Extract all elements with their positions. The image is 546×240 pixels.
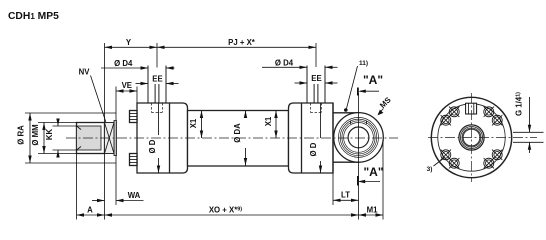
dimension G 1/4 — [513, 131, 544, 133]
rod thread bore KK — [77, 126, 102, 150]
extension line head port center — [156, 43, 158, 68]
dimension LT — [333, 199, 359, 201]
dimension KK — [53, 125, 77, 127]
svg-text:Ø DA: Ø DA — [233, 123, 242, 143]
end view centerlines — [428, 137, 537, 139]
svg-text:A: A — [87, 206, 93, 215]
svg-text:Ø D: Ø D — [309, 142, 318, 156]
svg-text:"A": "A" — [363, 165, 383, 179]
svg-text:3): 3) — [427, 166, 433, 173]
dimension EE cap port — [295, 82, 308, 84]
dimension PJ + X* — [157, 46, 316, 48]
svg-text:NV: NV — [79, 68, 91, 77]
dimension RA — [25, 112, 116, 114]
svg-text:KK: KK — [45, 129, 54, 141]
center bore circles — [459, 125, 484, 150]
svg-text:Ø D4: Ø D4 — [275, 58, 294, 67]
port boss at x=316 — [307, 66, 325, 104]
svg-text:11): 11) — [359, 60, 368, 67]
end view outer flange circle — [431, 97, 511, 177]
dimension M1 — [359, 214, 384, 216]
dimension D4 cap port — [262, 66, 307, 68]
hidden port thread — [310, 103, 312, 113]
svg-text:Ø D: Ø D — [148, 139, 157, 153]
end view port rect — [466, 103, 477, 114]
svg-text:CDH1 MP5: CDH1 MP5 — [8, 11, 59, 22]
svg-text:LT: LT — [341, 191, 350, 200]
dimension VE — [116, 90, 137, 92]
dimension MM — [38, 122, 77, 124]
dimension Y — [105, 46, 158, 48]
dimension D head — [158, 103, 160, 135]
svg-text:EE: EE — [152, 75, 162, 84]
svg-text:VE: VE — [122, 81, 132, 90]
svg-text:Y: Y — [126, 38, 132, 47]
spherical bearing rings — [339, 117, 379, 157]
dimension WA — [92, 200, 105, 202]
end view rim circle — [438, 104, 505, 171]
svg-text:Ø MM: Ø MM — [31, 124, 40, 145]
svg-text:X1: X1 — [189, 118, 198, 128]
svg-text:"A": "A" — [363, 73, 383, 87]
gland face strip — [114, 121, 117, 156]
wrench flats NV box — [105, 123, 115, 154]
svg-text:X1: X1 — [264, 116, 273, 126]
eye plate — [333, 113, 359, 162]
head retainer stub top — [130, 111, 138, 123]
dimension DA — [245, 111, 247, 119]
cylinder tube — [188, 111, 289, 167]
dimension X1 head — [201, 111, 203, 139]
svg-text:M1: M1 — [367, 206, 378, 215]
dimension X1 cap — [275, 111, 277, 139]
cap chamfer line — [301, 103, 303, 173]
bearing groove ticks — [350, 121, 352, 125]
port boss at x=157 — [148, 66, 166, 104]
svg-text:Ø D4: Ø D4 — [114, 59, 133, 68]
svg-text:EE: EE — [311, 74, 321, 83]
dimension A — [77, 214, 105, 216]
hidden port thread — [151, 103, 153, 113]
cylinder head block — [137, 103, 188, 173]
head chamfer line — [169, 103, 171, 173]
dimension D cap — [320, 103, 322, 138]
svg-text:PJ + X*: PJ + X* — [228, 38, 256, 47]
eye bore — [348, 127, 369, 148]
svg-text:WA: WA — [128, 191, 141, 200]
dimension XO + X* — [105, 214, 359, 216]
svg-text:Ø RA: Ø RA — [17, 125, 26, 145]
flange screws — [484, 107, 494, 117]
head retainer stub bottom — [130, 154, 138, 166]
piston rod end — [77, 123, 105, 154]
eye outer circle — [334, 113, 384, 163]
dimension D4 head port — [101, 67, 148, 69]
extension line rod shoulder — [104, 43, 106, 122]
cylinder cap block — [289, 103, 334, 173]
main center line — [66, 137, 398, 139]
dimension EE head port — [136, 83, 149, 85]
eye center extension line — [358, 93, 360, 220]
extension line cap port center — [315, 43, 317, 67]
